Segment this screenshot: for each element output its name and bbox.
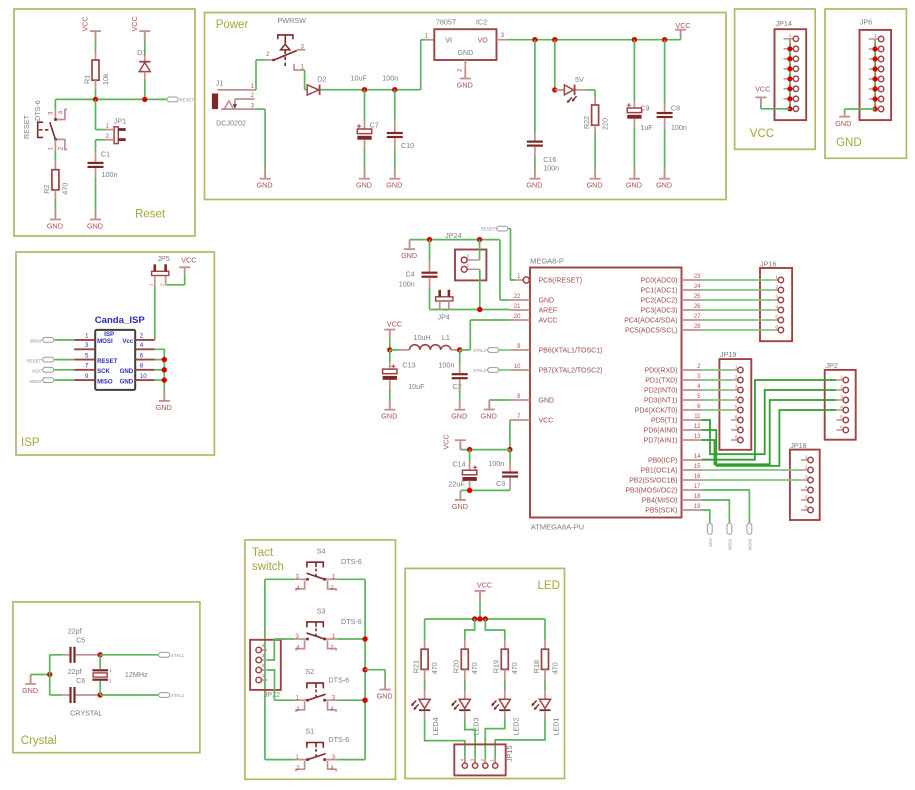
ground C10 [394,169,396,178]
wire switch to R2 [54,151,56,161]
svg-text:3: 3 [840,395,843,400]
wire GND rail (JP24 top) [410,239,500,241]
svg-text:470: 470 [550,662,559,674]
power VCC (R1 branch) [90,30,101,32]
svg-text:RESET: RESET [27,358,42,363]
wire top branch [50,654,63,656]
ground C9 [633,169,635,178]
svg-text:GND: GND [526,181,542,190]
wire LED3 to JP15 [465,719,475,763]
JP19 pin 2 [731,379,738,381]
svg-text:18: 18 [694,494,701,500]
svg-text:GND: GND [120,368,134,375]
svg-text:GND: GND [156,403,172,412]
svg-text:25: 25 [694,294,701,300]
wire VCC to LED rail [479,600,481,619]
svg-text:VCC: VCC [477,581,492,590]
svg-text:IC2: IC2 [476,18,487,27]
wire R22 to GND [594,134,596,169]
IC pin 15 PB1(OC1A) [682,469,702,471]
svg-text:AREF: AREF [539,308,558,315]
JP18 pin 1 [801,459,808,461]
svg-text:PD1(TXD): PD1(TXD) [645,378,677,385]
frame Tact switch block [245,540,396,779]
svg-text:R21: R21 [411,660,420,673]
svg-text:GND: GND [587,181,603,190]
svg-text:10uF: 10uF [351,73,368,82]
ground C2 [459,400,461,409]
JP14 pin 5 [784,78,794,80]
wire rail to R19 [485,619,505,640]
svg-text:470: 470 [61,183,70,195]
JP24 pin 1 [467,268,480,270]
IC pin 4 PD2(INT0) [682,389,702,391]
ground C16 [534,169,536,178]
svg-text:1uF: 1uF [640,123,653,132]
svg-text:PD5(T1): PD5(T1) [651,418,677,425]
wire PD3 to JP19 pin 4 [702,399,732,401]
svg-text:GND: GND [386,181,402,190]
wire pin13 to JP2 pin3 [702,400,837,464]
junction ISP pin6 [162,357,167,362]
svg-text:6: 6 [140,352,144,359]
LED LED3 [459,699,470,708]
wire pin15 to JP18 pin2 [702,469,802,471]
IC pin 25 PC2(ADC2) [682,299,702,301]
svg-text:12MHz: 12MHz [125,670,148,679]
svg-text:1: 1 [874,33,877,38]
IC pin 7 VCC [510,419,530,421]
junction at D1 [142,97,147,102]
svg-text:PC1(ADC1): PC1(ADC1) [641,288,678,295]
frame ISP block [16,252,214,455]
svg-text:JP4: JP4 [438,313,450,322]
resistor R2 470 [52,170,59,190]
wire PD4 to JP19 pin 5 [702,409,732,411]
svg-text:22uF: 22uF [448,479,465,488]
wire pin16 to JP18 pin3 [702,479,802,481]
IC pin 3 PD1(TXD) [682,379,702,381]
svg-text:PB7(XTAL2/TOSC2): PB7(XTAL2/TOSC2) [539,368,603,375]
IC pin 10 PB7(XTAL2/TOSC2) [510,369,530,371]
svg-text:1: 1 [490,759,495,762]
JP14 pin 2 [784,48,794,50]
svg-text:10: 10 [514,364,521,370]
svg-text:PB5(SCK): PB5(SCK) [645,508,677,515]
wire L1 to AVCC pin20 [460,349,471,351]
JP14 pin 6 [784,88,794,90]
frame Power block [205,13,727,200]
svg-text:switch: switch [252,561,284,573]
wire GND feeding JP6 [845,108,876,110]
svg-text:5V: 5V [575,75,584,84]
wire J1 pin3 to GND [255,108,265,110]
svg-text:R22: R22 [582,116,591,129]
JP14 pin 4 [784,68,794,70]
svg-text:MOSI: MOSI [748,539,753,550]
svg-text:GND: GND [257,181,273,190]
resistor R18 470 [542,649,549,669]
IC pin 26 PC3(ADC3) [682,309,702,311]
svg-text:4: 4 [775,305,778,310]
IC pin 19 PB5(SCK) [682,509,702,511]
junction LED branch [552,37,557,42]
JP16 pin 6 [772,329,779,331]
svg-text:S1: S1 [305,727,314,736]
capacitor C9 1uF [633,40,635,101]
wire to XTAL2 flag [100,694,158,696]
jumper JP4 [436,297,453,301]
svg-text:SCK: SCK [32,369,41,374]
svg-text:S3: S3 [317,606,326,615]
svg-text:R20: R20 [452,660,461,673]
junction JP6 pin 6 [873,86,878,91]
JP2 pin 2 [836,389,843,391]
svg-text:1: 1 [775,275,778,280]
junction C16 [532,37,537,42]
wire pin18 to MISO flag [702,500,730,523]
svg-text:100n: 100n [438,361,454,370]
wire VCC to R1 [95,42,97,51]
junction C10 [392,87,397,92]
svg-text:L1: L1 [442,333,450,342]
svg-text:5: 5 [775,315,778,320]
svg-text:24: 24 [694,284,701,290]
svg-text:R18: R18 [532,660,541,673]
resistor R19 470 [501,649,508,669]
svg-text:PD6(AIN0): PD6(AIN0) [644,428,678,435]
svg-text:DTS-6: DTS-6 [33,100,42,121]
junction JP6 pin 8 [873,106,878,111]
svg-text:3: 3 [262,653,265,658]
svg-text:100n: 100n [382,73,398,82]
wire R20 to LED3 [464,680,466,690]
svg-text:2: 2 [840,385,843,390]
Canda_ISP pin 3 nc [74,348,95,350]
svg-text:R1: R1 [82,75,91,84]
ground tact [384,680,386,689]
svg-text:LED4: LED4 [431,718,440,736]
svg-text:15: 15 [694,464,701,470]
wire JP12 pin2 to S2 [267,670,274,700]
svg-text:CRYSTAL: CRYSTAL [70,708,103,717]
net flag SCK [707,523,712,535]
IC pin 18 PB4(MISO) [682,499,702,501]
LED LED1 [539,699,550,708]
svg-text:22pf: 22pf [68,667,82,676]
svg-text:GND: GND [452,502,468,511]
ground pin8 [488,400,490,409]
IC pin 13 PD7(AIN1) [682,439,702,441]
wire pin12 to JP2 pin4 [702,410,837,466]
wire rail to R21 [424,619,426,640]
JP2 pin 1 [836,379,843,381]
capacitor C4 100n [429,240,431,261]
svg-text:Canda_ISP: Canda_ISP [95,315,146,326]
JP16 pin 1 [772,279,779,281]
junction C8 [662,37,667,42]
svg-text:4: 4 [459,759,464,762]
JP16 pin 5 [772,319,779,321]
svg-text:RESET: RESET [97,358,118,365]
IC pin 1 PC6(/RESET) [510,279,523,281]
wire LED2 to JP15 [485,719,505,763]
power VCC (D1 branch) [139,30,150,32]
wire C9 to GND [633,129,635,169]
wire JP14 bus [789,39,791,109]
ground C1 [95,210,97,219]
svg-text:8: 8 [735,435,738,440]
svg-text:PB0(ICP): PB0(ICP) [648,458,678,465]
svg-text:1: 1 [467,263,470,269]
svg-text:220: 220 [600,118,609,130]
wire pin7 VCC down [509,420,511,450]
IC2 GND pin2 [464,60,466,69]
svg-text:SCK: SCK [97,368,110,375]
net flag MISO [727,523,732,535]
svg-text:JP12: JP12 [264,690,280,699]
wire VCC to JP5 pin2 [184,275,186,285]
svg-text:S2: S2 [305,667,314,676]
IC pin 27 PC4(ADC4/SDA) [682,319,702,321]
svg-text:12: 12 [694,424,701,430]
wire JP5 pin1 to ISP Vcc [154,285,156,340]
svg-text:DCJ0202: DCJ0202 [216,119,246,128]
wire D1 to reset net [144,80,146,99]
junction XTAL2 [98,692,103,697]
svg-text:2: 2 [480,759,485,762]
svg-text:3: 3 [775,295,778,300]
svg-text:2: 2 [443,308,449,311]
IC pin 20 AVCC [510,319,530,321]
wire JP1 pin2 to C1 [96,139,106,141]
svg-text:4: 4 [262,643,265,648]
svg-text:22: 22 [514,294,521,300]
svg-text:100n: 100n [102,170,118,179]
resistor R1 10k [92,60,99,80]
JP2 pin 3 [836,399,843,401]
JP19 pin 8 [731,439,738,441]
IC pin 14 PB0(ICP) [682,459,702,461]
wire VCC rail (C14) [460,449,510,451]
JP6 pin 6 [869,88,879,90]
JP6 pin 1 [869,38,879,40]
LED LED2 [499,699,510,708]
svg-text:JP2: JP2 [826,361,838,370]
svg-text:PB2(SS/OC1B): PB2(SS/OC1B) [629,478,677,485]
svg-text:DTS-6: DTS-6 [341,617,362,626]
svg-text:VCC: VCC [539,418,554,425]
svg-text:JP15: JP15 [505,746,514,762]
svg-text:PB3(MOSI/OC2): PB3(MOSI/OC2) [625,488,677,495]
wire AREF rail [430,309,510,311]
svg-text:9: 9 [85,373,89,380]
svg-text:5: 5 [85,352,89,359]
svg-text:GND: GND [835,119,851,128]
JP19 pin 1 [731,369,738,371]
junction JP14 pin 6 [787,86,792,91]
svg-text:GND: GND [356,181,372,190]
svg-text:JP14: JP14 [776,19,792,28]
JP6 pin 3 [869,58,879,60]
svg-text:LED: LED [538,580,560,592]
svg-text:XTAL1: XTAL1 [171,653,185,658]
svg-text:5: 5 [840,415,843,420]
wire pin25 to JP16 pin 3 [702,299,772,301]
wire J1 pin1 to switch [255,89,256,91]
svg-text:27: 27 [694,314,701,320]
JP19 pin 5 [731,409,738,411]
svg-text:DTS-6: DTS-6 [328,735,349,744]
wire rail to LED 5V [554,40,556,90]
junction XTAL1 [98,652,103,657]
wire bottom branch [50,694,63,696]
svg-text:C5: C5 [76,636,85,645]
svg-text:C7: C7 [370,120,379,129]
JP6 pin 2 [869,48,879,50]
ground R22 [594,169,596,178]
junction JP14 pin 5 [787,76,792,81]
JP6 pin 8 [869,108,879,110]
IC pin 11 PD5(T1) [682,419,702,421]
ground C8 [664,169,666,178]
junction at R1 [93,97,98,102]
svg-text:PC6(/RESET): PC6(/RESET) [539,278,583,285]
net flag RESET [166,97,178,102]
wire D2 to C-section [321,89,421,91]
header JP12 [250,640,281,690]
svg-text:100n: 100n [543,164,559,173]
IC pin 24 PC1(ADC1) [682,289,702,291]
svg-text:AVCC: AVCC [539,318,558,325]
junction JP6 pin 7 [873,96,878,101]
wire rail to R20 [465,619,475,640]
JP12 pin 1 [261,679,267,681]
svg-text:C13: C13 [402,360,415,369]
wire C8 to GND [664,129,666,169]
JP6 pin 4 [869,68,879,70]
svg-text:4: 4 [840,405,843,410]
JP19 pin 3 [731,389,738,391]
IC pin 28 PC5(ADC5/SCL) [682,329,702,331]
svg-text:XTAL2: XTAL2 [473,368,487,373]
wire pin23 to JP16 pin 1 [702,279,772,281]
frame Reset block [14,9,195,236]
Canda_ISP pin 6 nc [135,359,154,361]
JP18 pin 3 [801,479,808,481]
crystal Q1 12MHz [99,655,101,669]
junction JP6 pin 3 [873,56,878,61]
Canda_ISP pin 9 MISO [74,379,95,381]
JP18 pin 2 [801,469,808,471]
svg-text:PC2(ADC2): PC2(ADC2) [641,298,678,305]
svg-text:VCC: VCC [755,85,770,94]
svg-text:21: 21 [514,304,521,310]
svg-text:ATMEGA8A-PU: ATMEGA8A-PU [531,523,584,532]
JP24 pin 2 [467,259,480,261]
svg-text:23: 23 [694,274,701,280]
junction rail c [483,616,488,621]
junction rail b [477,616,482,621]
JP18 pin 5 [801,499,808,501]
wire pin11 to JP2 pin2 [702,390,837,454]
svg-text:16: 16 [694,474,701,480]
resistor R20 470 [461,649,468,669]
svg-text:14: 14 [694,454,701,460]
svg-text:MEGA8-P: MEGA8-P [530,257,564,266]
junction JP14 pin 4 [787,66,792,71]
wire JP12 pin3 to S3 [267,639,274,660]
wire reset net horizontal [55,98,166,100]
Canda_ISP pin 2 Vcc [135,339,154,341]
svg-text:PD7(AIN1): PD7(AIN1) [644,438,678,445]
svg-text:GND: GND [381,412,397,421]
svg-text:LED1: LED1 [552,718,561,736]
wire GND tap [365,669,385,671]
svg-text:C8: C8 [671,104,680,113]
svg-text:GND: GND [120,378,134,385]
ground C7 [364,169,366,178]
svg-text:J1: J1 [216,79,224,88]
svg-text:GND: GND [451,412,467,421]
svg-text:D1: D1 [137,48,146,57]
IC pin 8 GND [510,399,530,401]
IC pin 22 GND [510,299,530,301]
svg-text:GND: GND [539,398,555,405]
svg-text:XTAL2: XTAL2 [171,693,185,698]
IC pin 6 PD4(XCK/T0) [682,409,702,411]
svg-text:MISO: MISO [97,378,113,385]
capacitor C3 100n [509,450,511,462]
svg-text:4: 4 [735,395,738,400]
IC pin 21 AREF [510,309,530,311]
wire net to JP1 pin1 [95,99,97,129]
IC pin 23 PC0(ADC0) [682,279,702,281]
wire pin28 to JP16 pin 6 [702,329,772,331]
svg-text:GND: GND [47,222,63,231]
resistor R22 220 [592,105,599,125]
net flag XTAL2 (crystal) [158,693,170,698]
frame Crystal block [13,602,200,753]
IC pin 12 PD6(AIN0) [682,429,702,431]
junction rail a [472,616,477,621]
junction VCC rail right [507,447,512,452]
junction GND tap [362,667,367,672]
capacitor C2 100n [459,350,461,365]
Canda_ISP pin 7 SCK [74,369,95,371]
svg-text:100n: 100n [671,123,687,132]
JP16 pin 3 [772,299,779,301]
frame LED block [405,568,564,778]
svg-text:SCK: SCK [708,538,713,547]
IC pin 16 PB2(SS/OC1B) [682,479,702,481]
JP12 pin 2 [261,669,267,671]
wire R2 to GND [54,199,56,210]
wire R18 to LED1 [544,680,546,690]
svg-text:PB6(XTAL1/TOSC1): PB6(XTAL1/TOSC1) [539,348,603,355]
capacitor C13 10uF [389,350,391,362]
svg-text:C14: C14 [452,459,465,468]
svg-text:GND: GND [836,137,862,149]
svg-text:1: 1 [735,365,738,370]
IC2 VO pin stub [497,39,507,41]
svg-text:PB4(MISO): PB4(MISO) [642,498,678,505]
JP16 pin 2 [772,289,779,291]
ground C14 rail [459,490,461,499]
ground C13 [389,400,391,409]
svg-text:GND: GND [457,81,473,90]
JP19 pin 7 [731,429,738,431]
